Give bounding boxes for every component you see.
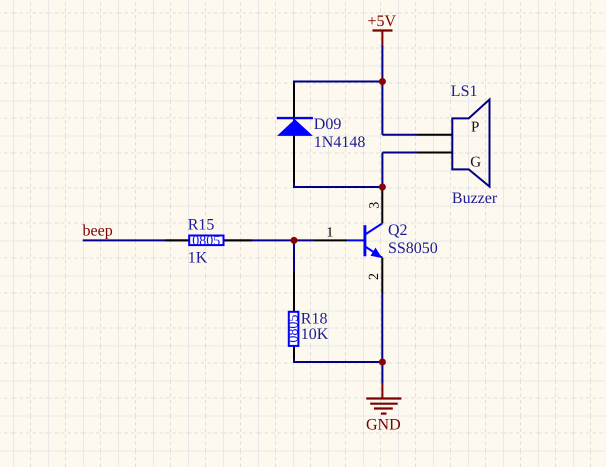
wire R18 branch [294, 240, 382, 362]
diode D09 pin 2 [293, 137, 295, 184]
svg-text:GND: GND [366, 417, 401, 434]
svg-text:G: G [470, 154, 481, 170]
buzzer LS1 pin P wire [417, 134, 452, 136]
resistor R18 pin 1 [293, 272, 295, 312]
resistor R15 pin 1 [165, 239, 189, 241]
svg-text:0805: 0805 [192, 234, 220, 249]
wire collector vertical [381, 82, 383, 188]
power port +5V bar [373, 31, 393, 48]
svg-text:R15: R15 [188, 216, 215, 233]
buzzer LS1 body [452, 100, 489, 187]
wire to buzzer pin P [382, 134, 417, 136]
buzzer LS1 pin G wire [417, 152, 452, 154]
junction node at diode bottom [379, 184, 386, 191]
svg-text:0805: 0805 [286, 315, 301, 343]
resistor R18 body [289, 312, 299, 346]
resistor R15 pin 2 [224, 239, 252, 241]
transistor Q2 pin 2 emitter [381, 258, 383, 293]
wire diode loop [294, 82, 382, 188]
wire to buzzer pin G [382, 152, 417, 154]
transistor Q2 pin 1 base [313, 239, 347, 241]
svg-text:1: 1 [326, 226, 333, 241]
wire gnd stem [381, 362, 383, 383]
junction node at base/R18 [291, 237, 298, 244]
svg-text:2: 2 [367, 273, 382, 280]
svg-text:+5V: +5V [368, 13, 397, 30]
svg-text:P: P [471, 119, 479, 135]
svg-text:SS8050: SS8050 [388, 240, 438, 257]
wire beep to base [83, 239, 313, 241]
diode D09 body [277, 118, 313, 136]
junction node at +5V branch [379, 78, 386, 85]
svg-text:Buzzer: Buzzer [452, 190, 498, 207]
svg-text:D09: D09 [314, 116, 342, 133]
resistor R15 body [189, 236, 223, 246]
wire +5V stem [381, 46, 383, 82]
diode D09 pin 1 [293, 84, 295, 117]
junction node at emitter/gnd [379, 359, 386, 366]
transistor Q2 symbol [347, 223, 382, 258]
svg-text:1N4148: 1N4148 [314, 134, 366, 151]
wire emitter to gnd node [381, 293, 383, 362]
ground symbol [366, 383, 401, 414]
svg-text:beep: beep [83, 223, 113, 240]
svg-text:3: 3 [367, 202, 382, 209]
svg-text:LS1: LS1 [451, 83, 478, 100]
svg-text:10K: 10K [301, 326, 329, 343]
svg-text:Q2: Q2 [388, 222, 408, 239]
transistor Q2 pin 3 collector [381, 189, 383, 224]
svg-text:1K: 1K [188, 249, 208, 266]
resistor R18 pin 2 [293, 346, 295, 359]
